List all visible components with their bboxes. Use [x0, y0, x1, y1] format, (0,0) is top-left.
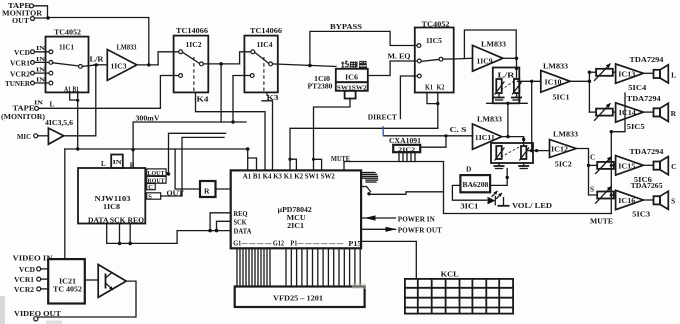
svg-text:REQ: REQ — [234, 210, 248, 218]
op-amp mic buffer — [48, 128, 63, 144]
wire A1B1 down — [77, 100, 79, 149]
comb MCU right edge — [361, 172, 375, 174]
junction amp feed — [588, 80, 592, 84]
svg-text:LM833: LM833 — [553, 131, 578, 139]
svg-text:TC14066: TC14066 — [250, 27, 282, 35]
equalizer IC6 — [336, 69, 368, 82]
svg-text:S: S — [590, 186, 594, 194]
svg-text:1IC2: 1IC2 — [186, 41, 203, 49]
wire mic in — [38, 135, 49, 137]
IC 2IC2 — [393, 145, 420, 152]
wire DIRECT stub — [400, 76, 417, 119]
wire L/R amp split — [588, 72, 590, 112]
wire tape to 1IC2 in2 — [39, 76, 179, 109]
svg-text:LM833: LM833 — [117, 43, 137, 51]
svg-text:R: R — [671, 109, 677, 118]
svg-text:IC12: IC12 — [551, 146, 569, 154]
wire jog to 1IC2 in1 — [158, 52, 179, 65]
svg-text:TC 4052: TC 4052 — [53, 286, 83, 294]
svg-text:DATA SCK REQ: DATA SCK REQ — [88, 216, 145, 224]
equalizer SW1SW2 — [336, 82, 368, 91]
svg-text:POWER IN: POWER IN — [398, 215, 436, 223]
wire SCK branch — [217, 221, 231, 230]
wire 1IC9 out — [503, 57, 517, 59]
wire R left — [175, 149, 200, 189]
wire LOUT riser — [166, 133, 226, 173]
speaker S — [643, 199, 653, 201]
svg-text:1IC3: 1IC3 — [111, 63, 128, 71]
potentiometer R — [514, 79, 519, 93]
potentiometer L — [496, 79, 501, 93]
ground R pot — [516, 93, 518, 98]
label equalizer (CJK) — [341, 61, 367, 68]
svg-text:5IC5: 5IC5 — [627, 123, 646, 131]
wire wiper to IC12 — [526, 150, 549, 152]
wire feed to 1IC4 in2 — [233, 76, 250, 123]
key matrix grid — [405, 279, 513, 314]
svg-text:M. EQ: M. EQ — [388, 53, 411, 61]
wire REQ branch — [210, 213, 231, 231]
blue pen mark — [382, 126, 384, 136]
SEC-IC5 — [288, 20, 518, 170]
svg-text:PT2380: PT2380 — [308, 84, 334, 91]
stub box below equalizer — [345, 91, 356, 99]
wire 1IC11 out — [502, 137, 524, 146]
svg-text:1IC8: 1IC8 — [103, 203, 121, 211]
svg-text:IC13: IC13 — [618, 70, 636, 78]
svg-text:L: L — [50, 101, 55, 109]
svg-text:5IC4: 5IC4 — [628, 84, 647, 92]
SEC-NJW — [78, 133, 231, 245]
svg-text:2IC1: 2IC1 — [287, 223, 305, 230]
wire mute branch to IC13/IC14 — [611, 93, 625, 132]
terminal MIC — [34, 134, 38, 138]
terminal TAPE IN — [35, 106, 39, 110]
scan smudge bottom-left — [0, 296, 5, 324]
wire video out — [38, 281, 136, 317]
svg-text:P15: P15 — [348, 240, 361, 248]
svg-text:C: C — [148, 184, 153, 191]
wire tape-monitor bracket — [34, 6, 48, 18]
svg-text:(MONITOR): (MONITOR) — [1, 112, 46, 121]
wire video control down — [64, 149, 66, 259]
wire K line to MCU — [290, 128, 438, 170]
svg-text:BYPASS: BYPASS — [330, 22, 362, 31]
svg-text:G1— — — — G12 P1— — — — — —: G1— — — — G12 P1— — — — — — — [233, 240, 344, 248]
SEC-TAPEOUT — [2, 1, 149, 64]
trimmer R — [589, 111, 596, 113]
wire wiper node down to IC12 — [531, 81, 533, 150]
wire bypass loop over 1IC9 — [464, 30, 516, 59]
wire A1 down to MCU — [247, 149, 249, 170]
wire serial bus to MCU — [107, 231, 231, 244]
wire aux to mute line — [361, 187, 370, 192]
junction main tap — [219, 62, 223, 66]
pins G1-G12 — [237, 248, 270, 286]
svg-text:MIC: MIC — [17, 132, 31, 141]
wire BYPASS — [310, 31, 417, 65]
SEC-VIDEO — [13, 253, 137, 321]
display VFD25-1201 — [235, 287, 365, 308]
svg-text:IN: IN — [34, 100, 44, 107]
output box LOUT — [147, 169, 166, 176]
trimmer S — [597, 192, 614, 199]
svg-text:μPD78042: μPD78042 — [278, 207, 313, 214]
svg-text:LM833: LM833 — [477, 116, 502, 124]
svg-text:VIDEO OUT: VIDEO OUT — [14, 309, 61, 318]
svg-text:5IC2: 5IC2 — [555, 161, 573, 169]
wire MUTE long — [344, 162, 611, 214]
wire to key matrix — [361, 241, 416, 279]
svg-text:300mV: 300mV — [136, 114, 160, 122]
svg-text:S: S — [148, 194, 152, 201]
microcontroller 2IC1 — [231, 170, 361, 248]
svg-text:LOUT: LOUT — [148, 170, 166, 177]
wire IC12 out split — [576, 149, 597, 196]
svg-text:VCR2: VCR2 — [14, 286, 35, 294]
wire SW control to MCU — [314, 99, 351, 171]
analog switch 1IC2 — [174, 36, 209, 93]
potentiometer C vol — [496, 146, 501, 159]
transistor in buffer — [105, 274, 107, 289]
svg-text:IC21: IC21 — [59, 278, 77, 286]
arrow POWFR OUT — [361, 228, 396, 230]
wire IC10 out — [570, 80, 589, 82]
wire SW2 branch — [314, 159, 322, 170]
svg-text:VFD25 – 1201: VFD25 – 1201 — [273, 295, 323, 303]
svg-text:C: C — [590, 154, 595, 162]
svg-text:A1 B1 K4 K3 K1 K2 SW1 SW2: A1 B1 K4 K3 K1 K2 SW1 SW2 — [243, 172, 335, 180]
wire BA6208 left loop — [452, 185, 486, 200]
svg-text:IC14: IC14 — [619, 109, 637, 117]
svg-text:1IC11: 1IC11 — [475, 134, 496, 142]
svg-text:K4: K4 — [197, 96, 210, 104]
wire 1IC9 node into R pot — [516, 58, 518, 79]
wire bottom rail of block — [487, 102, 528, 104]
svg-text:IC16: IC16 — [618, 197, 636, 205]
svg-text:L: L — [671, 71, 676, 80]
video buffer amp — [98, 265, 126, 298]
svg-text:VCD: VCD — [19, 266, 35, 274]
svg-text:KCL: KCL — [441, 270, 459, 279]
wire mic out to L/R node — [64, 65, 96, 136]
volume block L/R — [493, 68, 520, 104]
video multiplexer IC21 — [48, 259, 85, 303]
wire K1 K2 merge — [427, 93, 438, 104]
wire C.S to 1IC11 — [384, 135, 473, 137]
wire DATA stub — [106, 224, 108, 244]
svg-text:LM833: LM833 — [481, 41, 506, 49]
wire M.EQ — [368, 61, 418, 76]
SEC-IC1 — [1, 29, 179, 150]
wire video mux out — [85, 279, 98, 281]
svg-text:TDA7294: TDA7294 — [629, 148, 663, 156]
SEC-AMPS — [473, 56, 677, 226]
ganged dashed link 2 — [501, 146, 521, 157]
SEC-MCU — [175, 138, 611, 307]
output box S — [147, 193, 161, 199]
input box IN — [111, 155, 123, 169]
svg-text:TUNER: TUNER — [5, 80, 31, 88]
junction bypass tap — [308, 64, 312, 68]
analog switch 1IC4 — [244, 36, 277, 93]
pins 2IC2 — [398, 152, 400, 161]
SEC-BA — [452, 165, 552, 211]
svg-text:SCK: SCK — [234, 219, 247, 227]
arrow POWER IN — [361, 217, 396, 219]
svg-text:1IC5: 1IC5 — [426, 37, 443, 45]
wire A1B1 stubs — [70, 92, 78, 100]
speaker L — [643, 72, 653, 74]
wire jog to 1IC4 in1 — [240, 52, 251, 64]
svg-text:MCU: MCU — [287, 215, 306, 222]
wire 1IC2 out — [203, 63, 239, 65]
svg-text:DIRECT: DIRECT — [368, 113, 397, 122]
SEC-EQ — [308, 22, 418, 170]
svg-text:TC14066: TC14066 — [176, 27, 208, 35]
svg-text:IN: IN — [113, 159, 122, 166]
SEC-ROW1 — [65, 27, 336, 259]
svg-text:D: D — [466, 165, 471, 174]
wire K3 stub — [266, 92, 268, 95]
svg-text:1IC4: 1IC4 — [257, 41, 274, 49]
speaker C — [643, 164, 653, 166]
terminal VIDEO OUT — [34, 317, 38, 321]
junction — [46, 16, 49, 19]
wire 1IC3 out — [137, 64, 158, 66]
wire MUTE rail — [610, 132, 612, 214]
multiplexer 1IC1 — [46, 37, 89, 93]
svg-text:S: S — [671, 197, 675, 206]
svg-text:1IC1: 1IC1 — [59, 44, 75, 52]
svg-text:IN: IN — [36, 45, 46, 52]
svg-text:C: C — [671, 162, 676, 171]
svg-text:LM833: LM833 — [543, 62, 568, 70]
svg-text:VCR1: VCR1 — [14, 276, 35, 284]
svg-text:IN: IN — [36, 76, 46, 83]
wire rail down to 1IC11 out — [507, 103, 509, 136]
trimmer L — [589, 71, 596, 73]
svg-text:IC6: IC6 — [345, 74, 359, 82]
svg-text:BA6208: BA6208 — [462, 182, 489, 189]
svg-text:L/R: L/R — [90, 56, 105, 64]
pins P1-P15 — [286, 248, 360, 286]
svg-text:5IC1: 5IC1 — [553, 94, 571, 102]
motor driver BA6208 — [460, 175, 490, 192]
wire 1IC4 out — [273, 64, 337, 67]
wire BA6208 right to vol pot — [490, 169, 507, 186]
wire B1 branch — [248, 158, 257, 170]
speaker R — [643, 111, 653, 113]
svg-text:IC15: IC15 — [618, 162, 636, 170]
svg-text:5IC3: 5IC3 — [632, 211, 651, 219]
LED VOL — [488, 197, 496, 205]
potentiometer S vol — [521, 146, 526, 159]
wire to 1IC3 output node — [48, 18, 149, 64]
svg-text:TC4052: TC4052 — [54, 29, 81, 37]
svg-text:VOL/ LED: VOL/ LED — [512, 201, 552, 210]
volume block C/S — [491, 143, 533, 163]
svg-text:TDA7294: TDA7294 — [627, 95, 661, 103]
svg-text:IN: IN — [36, 66, 46, 73]
svg-text:R: R — [204, 187, 210, 196]
wire S OUT riser — [161, 137, 224, 196]
svg-text:MUTE: MUTE — [590, 217, 613, 226]
symbol pot contact — [503, 198, 505, 206]
wire A1B1 horizontal to MCU — [65, 148, 248, 150]
output box ROUT — [147, 176, 166, 183]
switch wiper 1IC1 — [53, 63, 79, 66]
wire 1IC5 out to 1IC9 — [454, 57, 473, 60]
svg-text:POWFR OUT: POWFR OUT — [398, 226, 442, 234]
svg-text:TDA7265: TDA7265 — [631, 182, 663, 190]
svg-text:DATA: DATA — [234, 228, 253, 236]
multiplexer 1IC5 — [415, 28, 454, 93]
wire R wiper to IC10 — [518, 80, 541, 82]
switch wiper 1IC5 — [421, 59, 439, 61]
svg-text:4IC3,5,6: 4IC3,5,6 — [45, 120, 74, 127]
svg-text:1IC9: 1IC9 — [477, 58, 494, 66]
svg-text:K1: K1 — [425, 84, 433, 92]
svg-text:NJW1103: NJW1103 — [95, 195, 131, 203]
terminal TAPE MONITOR — [30, 4, 34, 8]
ground C pot — [498, 163, 500, 166]
svg-text:OUT: OUT — [12, 16, 29, 25]
wire C branch — [589, 164, 598, 166]
svg-text:L: L — [101, 160, 106, 168]
wire K4 to MCU — [196, 92, 266, 170]
wire SCK stub — [119, 224, 121, 244]
trimmer C — [597, 162, 614, 169]
wire K2 branch — [290, 159, 296, 170]
ground S pot — [523, 163, 525, 166]
svg-text:1Ci0: 1Ci0 — [314, 76, 331, 83]
wire tap down to 300mV — [220, 64, 222, 122]
svg-text:TDA7294: TDA7294 — [629, 56, 663, 64]
svg-text:3IC1: 3IC1 — [460, 203, 479, 211]
SEC-KCL — [405, 270, 513, 314]
wire from 2IC2 to C.S — [420, 136, 446, 147]
output box C — [147, 184, 156, 190]
ganged dashed link — [501, 81, 514, 90]
svg-text:VCR1: VCR1 — [10, 60, 31, 68]
wire R to MCU — [216, 188, 231, 190]
svg-text:VCD: VCD — [14, 49, 30, 57]
resistor R box — [200, 181, 216, 197]
svg-text:K2: K2 — [437, 84, 445, 92]
wire REQ stub — [129, 224, 131, 244]
terminal OUT — [31, 17, 35, 21]
svg-text:C. S: C. S — [450, 126, 467, 134]
svg-text:VCR2: VCR2 — [10, 70, 31, 78]
ground L pot — [498, 93, 500, 98]
surround processor NJW1103 — [78, 168, 145, 224]
svg-text:IC10: IC10 — [545, 78, 563, 86]
